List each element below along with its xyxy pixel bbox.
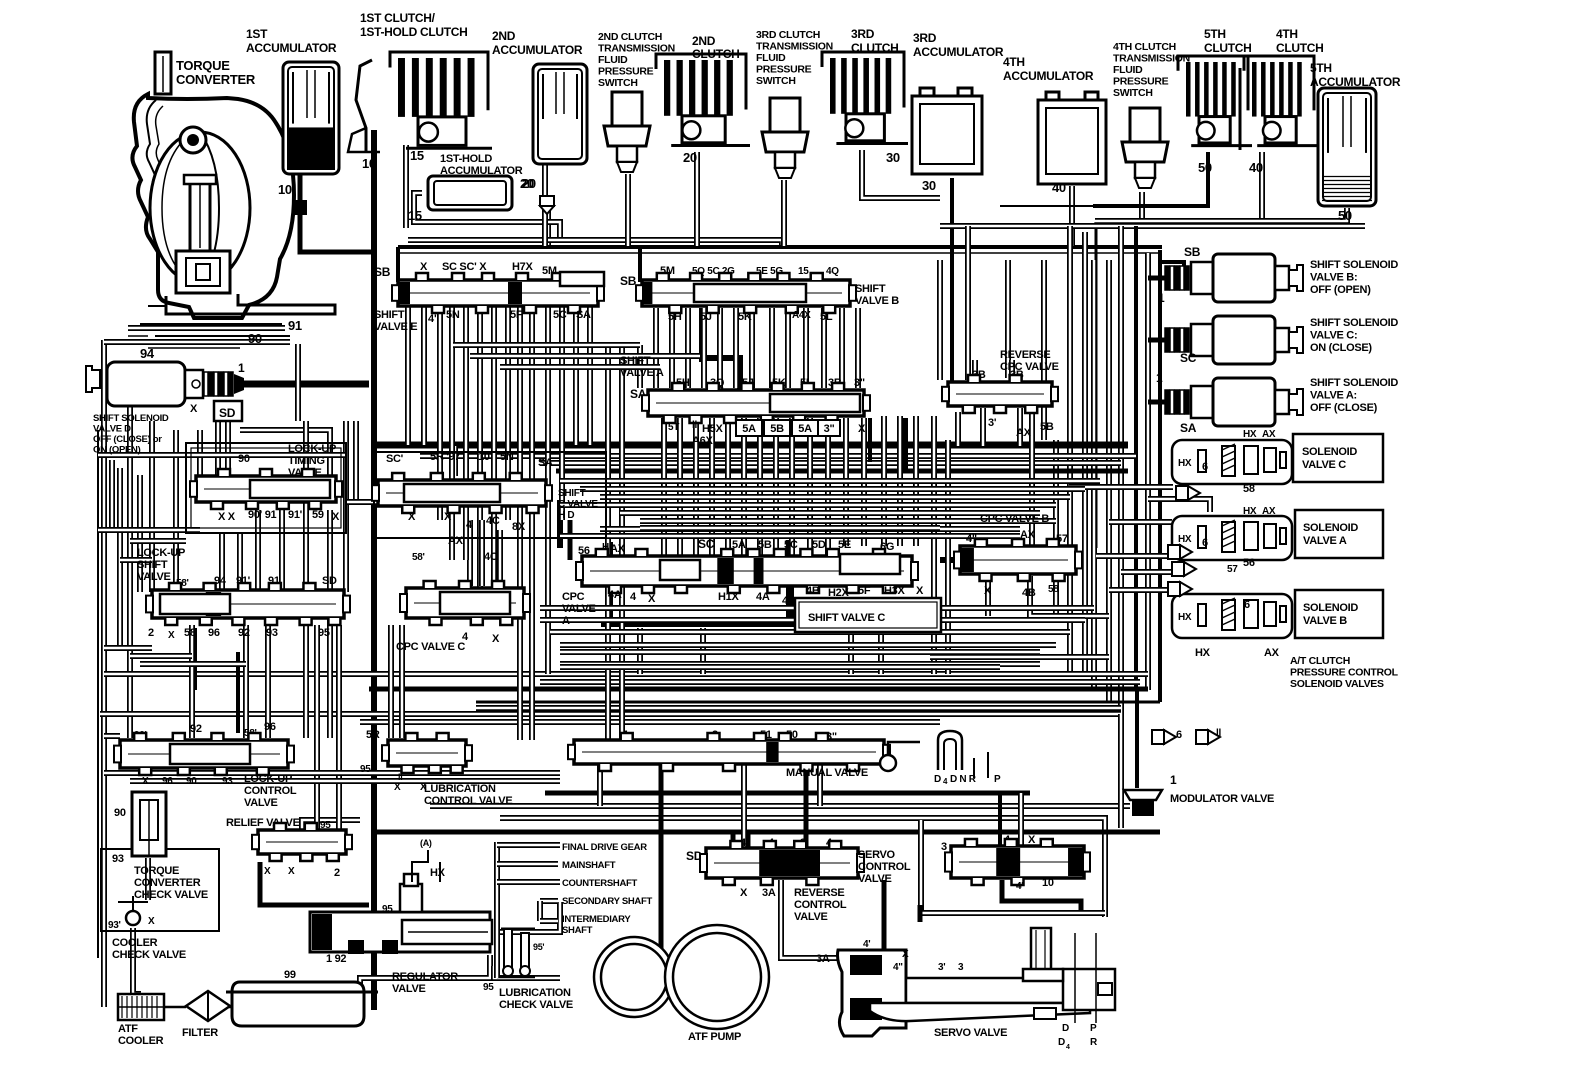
svg-text:VALVE: VALVE	[794, 911, 828, 923]
svg-text:93: 93	[222, 776, 233, 787]
ATF pump	[594, 925, 769, 1043]
svg-text:58: 58	[1048, 584, 1059, 595]
svg-text:4A: 4A	[608, 589, 622, 601]
servo valve	[816, 928, 1115, 1051]
svg-text:TORQUE: TORQUE	[134, 865, 179, 877]
wire solenoid D to trunk	[243, 381, 369, 388]
wire manual valve drop 744	[741, 764, 747, 848]
filter	[182, 991, 230, 1039]
svg-text:X X: X X	[218, 511, 236, 523]
svg-text:SD: SD	[219, 406, 236, 420]
wire thick 4 vert	[607, 542, 613, 624]
wire solC assembly link	[1069, 484, 1173, 490]
svg-text:REVERSE: REVERSE	[794, 887, 844, 899]
svg-text:COUNTERSHAFT: COUNTERSHAFT	[562, 878, 638, 889]
svg-text:ON (CLOSE): ON (CLOSE)	[1310, 342, 1372, 354]
svg-text:5N: 5N	[500, 451, 514, 463]
svg-text:4A: 4A	[756, 591, 770, 603]
svg-text:SWITCH: SWITCH	[598, 77, 638, 89]
svg-text:X: X	[420, 261, 428, 273]
wire 2nd accum check valve	[545, 196, 551, 246]
svg-text:91': 91'	[288, 509, 303, 521]
svg-text:3": 3"	[854, 377, 865, 389]
svg-text:SHIFT: SHIFT	[855, 283, 886, 295]
wire regulator right	[495, 902, 560, 932]
svg-text:H7X: H7X	[512, 261, 533, 273]
shift solenoid valve B	[1165, 245, 1398, 302]
lubrication control valve	[360, 729, 512, 807]
wire vertical tube bundle between valves	[408, 226, 1044, 740]
svg-text:H1X: H1X	[718, 591, 739, 603]
CPC valve A and shift valve C	[562, 537, 941, 632]
svg-text:H2X: H2X	[828, 587, 849, 599]
svg-text:10: 10	[278, 182, 292, 197]
svg-text:VALVE C:: VALVE C:	[1310, 330, 1357, 342]
wire CPC C top link	[467, 520, 473, 586]
svg-text:SHIFT VALVE C: SHIFT VALVE C	[808, 612, 885, 624]
svg-text:ATF PUMP: ATF PUMP	[688, 1031, 741, 1043]
svg-text:CLUTCH: CLUTCH	[1204, 41, 1252, 55]
2nd accumulator	[492, 29, 587, 214]
svg-text:4": 4"	[428, 313, 439, 325]
svg-text:A/T CLUTCH: A/T CLUTCH	[1290, 655, 1350, 667]
svg-text:H D: H D	[558, 510, 574, 521]
svg-text:X: X	[492, 633, 500, 645]
svg-text:X: X	[264, 866, 271, 877]
svg-text:OFF (CLOSE) or: OFF (CLOSE) or	[93, 434, 162, 445]
svg-text:C VALVE: C VALVE	[558, 499, 598, 510]
shift valve D	[372, 451, 598, 533]
svg-text:A: A	[562, 615, 570, 627]
wire 5th clutch 50 down	[1093, 152, 1208, 206]
svg-text:93: 93	[266, 627, 278, 639]
wire bottom 818	[500, 818, 1105, 917]
svg-text:1: 1	[1156, 371, 1163, 385]
wire SB valveB top	[638, 247, 642, 282]
svg-text:SHIFT SOLENOID: SHIFT SOLENOID	[93, 413, 169, 424]
svg-text:SHIFT: SHIFT	[137, 559, 168, 571]
wire main thick mid 445	[375, 442, 1128, 449]
svg-text:SA: SA	[576, 309, 591, 321]
svg-text:4TH: 4TH	[1276, 27, 1298, 41]
wire 4th accum drop 40	[1069, 186, 1075, 246]
svg-text:91: 91	[288, 318, 302, 333]
svg-text:MAINSHAFT: MAINSHAFT	[562, 860, 616, 871]
svg-text:1ST-HOLD: 1ST-HOLD	[440, 153, 492, 165]
svg-text:SECONDARY SHAFT: SECONDARY SHAFT	[562, 896, 652, 907]
svg-text:X: X	[394, 782, 401, 793]
svg-text:SERVO VALVE: SERVO VALVE	[934, 1027, 1007, 1039]
svg-text:D: D	[1058, 1037, 1065, 1048]
2nd clutch transmission fluid pressure switch	[598, 31, 675, 172]
wire 1 92 line	[310, 903, 369, 908]
svg-text:10: 10	[362, 156, 376, 171]
svg-text:A6X: A6X	[692, 435, 713, 447]
wire pan 99 to regulator	[360, 955, 490, 992]
svg-text:MODULATOR VALVE: MODULATOR VALVE	[1170, 793, 1274, 805]
svg-text:SD: SD	[322, 575, 337, 587]
svg-text:10: 10	[1042, 877, 1054, 889]
svg-text:ON (OPEN): ON (OPEN)	[93, 445, 141, 456]
svg-text:VALVE E: VALVE E	[374, 321, 417, 333]
svg-text:VALVE: VALVE	[392, 983, 426, 995]
wire TCC check drop	[145, 858, 151, 900]
svg-text:LOCK-UP: LOCK-UP	[288, 443, 336, 455]
svg-text:1: 1	[1158, 291, 1165, 305]
svg-text:X: X	[148, 916, 155, 927]
svg-text:ACCUMULATOR: ACCUMULATOR	[246, 41, 337, 55]
svg-text:95: 95	[320, 820, 331, 831]
svg-text:3: 3	[941, 841, 947, 853]
svg-text:57: 57	[1227, 564, 1238, 575]
svg-text:4': 4'	[1016, 881, 1023, 892]
svg-text:CPC VALVE: CPC VALVE	[1000, 361, 1059, 373]
wire 3rd TFPS drop	[781, 180, 787, 246]
4th accumulator	[1003, 55, 1106, 195]
5th accumulator	[1310, 61, 1401, 223]
frame shift valve D box	[374, 452, 606, 538]
wire reverse CPC drop	[980, 408, 986, 446]
wire manual valve drop 661	[659, 764, 664, 978]
svg-text:R: R	[1090, 1037, 1098, 1048]
wire manual valve drop 600	[597, 764, 603, 806]
svg-text:99: 99	[284, 969, 296, 981]
svg-text:SHIFT SOLENOID: SHIFT SOLENOID	[1310, 317, 1398, 329]
torque converter TC	[128, 52, 335, 361]
svg-text:ACCUMULATOR: ACCUMULATOR	[492, 43, 583, 57]
wire bottom 806	[430, 803, 1130, 809]
shaft labels and lubrication lines	[497, 842, 652, 978]
wire right trunk 1121	[1118, 226, 1124, 714]
svg-text:ACCUMULATOR: ACCUMULATOR	[1003, 69, 1094, 83]
svg-text:FLUID: FLUID	[598, 54, 628, 66]
svg-text:PRESSURE: PRESSURE	[1113, 76, 1169, 88]
svg-text:FILTER: FILTER	[182, 1027, 218, 1039]
wire 15 accumulator link	[414, 193, 560, 240]
svg-text:4B: 4B	[1022, 587, 1036, 599]
svg-text:1: 1	[1170, 773, 1177, 787]
svg-text:H3X: H3X	[884, 585, 905, 597]
wire thick valveA right	[902, 418, 908, 470]
svg-text:4': 4'	[863, 939, 870, 950]
svg-text:TORQUE: TORQUE	[176, 58, 230, 73]
wire filter to pan	[228, 1006, 240, 1009]
svg-text:6: 6	[1176, 729, 1182, 741]
svg-text:X: X	[858, 423, 866, 435]
svg-text:3A: 3A	[816, 953, 830, 965]
wire regulator inlet thick	[260, 862, 310, 905]
svg-text:HX: HX	[1178, 534, 1192, 545]
svg-text:PRESSURE: PRESSURE	[598, 66, 654, 78]
svg-text:92: 92	[190, 723, 202, 735]
svg-text:MANUAL VALVE: MANUAL VALVE	[786, 767, 868, 779]
svg-text:ll: ll	[692, 420, 697, 431]
solenoid valve C assembly	[1172, 429, 1383, 495]
svg-text:CLUTCH: CLUTCH	[1276, 41, 1324, 55]
svg-text:CONTROL VALVE: CONTROL VALVE	[424, 795, 512, 807]
svg-text:2: 2	[148, 627, 154, 639]
svg-text:CHECK VALVE: CHECK VALVE	[134, 889, 208, 901]
svg-text:20: 20	[683, 150, 697, 165]
wire top bus thin 253	[398, 252, 1162, 254]
svg-text:X: X	[984, 585, 992, 597]
wire bottom 702	[476, 701, 1160, 704]
CPC valve C	[396, 535, 530, 653]
wire bottom 832 thick	[376, 830, 1160, 835]
svg-text:X: X	[648, 593, 656, 605]
svg-text:10: 10	[478, 451, 490, 463]
svg-text:X: X	[902, 949, 909, 960]
svg-text:SOLENOID: SOLENOID	[1302, 446, 1357, 458]
svg-text:SOLENOID: SOLENOID	[1303, 522, 1358, 534]
svg-text:LUBRICATION: LUBRICATION	[424, 783, 496, 795]
wire 4th clutch 40 down	[1259, 152, 1265, 220]
svg-text:4B: 4B	[806, 585, 820, 597]
svg-text:TIMING: TIMING	[288, 455, 325, 467]
svg-text:SHIFT: SHIFT	[558, 488, 586, 499]
wire 4th TFPS drop	[1139, 192, 1145, 226]
reverse CPC valve	[942, 349, 1059, 439]
svg-text:40: 40	[1052, 180, 1066, 195]
svg-text:3: 3	[958, 962, 964, 973]
wire mid thick 471	[556, 469, 1128, 474]
wire left col 130	[127, 392, 133, 738]
svg-text:8X: 8X	[512, 521, 526, 533]
frame TCC check valve box	[101, 849, 219, 931]
wire servo valve feed 2	[921, 820, 1105, 913]
svg-text:SC SC' X: SC SC' X	[442, 261, 487, 273]
svg-text:SHIFT: SHIFT	[620, 355, 651, 367]
svg-text:D N R: D N R	[950, 774, 977, 785]
wire 15 from 1st-hold clutch	[403, 145, 409, 228]
svg-text:4: 4	[1066, 1044, 1070, 1051]
lock-up control valve	[114, 721, 297, 809]
svg-text:SOLENOID: SOLENOID	[1303, 602, 1358, 614]
svg-text:5D: 5D	[812, 539, 826, 551]
wire main left trunk 1	[371, 130, 377, 1010]
svg-text:VALVE B:: VALVE B:	[1310, 272, 1357, 284]
svg-text:X: X	[288, 866, 295, 877]
wire sol SB elbow	[1160, 262, 1184, 270]
svg-text:59: 59	[312, 509, 324, 521]
svg-text:20: 20	[520, 176, 534, 191]
svg-text:CONTROL: CONTROL	[858, 861, 911, 873]
svg-text:4TH CLUTCH: 4TH CLUTCH	[1113, 41, 1176, 53]
wire right trunk 1085	[1082, 232, 1088, 674]
svg-text:HX: HX	[1178, 458, 1192, 469]
svg-text:VALVE C: VALVE C	[1302, 459, 1346, 471]
svg-text:5R '97: 5R '97	[430, 451, 460, 463]
wire thick shiftC horiz	[601, 621, 800, 627]
wire left col 104	[101, 340, 107, 1007]
wire 5th accum 50	[1095, 208, 1347, 221]
wire CPC B drop2	[1030, 576, 1109, 616]
shift solenoid valve C	[1158, 291, 1398, 365]
svg-text:LUBRICATION: LUBRICATION	[499, 987, 571, 999]
svg-text:HX: HX	[1195, 647, 1211, 659]
wire thick 5J elbow	[699, 358, 740, 390]
svg-text:3": 3"	[824, 423, 835, 435]
svg-text:58: 58	[184, 627, 196, 639]
1st accumulator	[246, 27, 339, 215]
svg-text:ACCUMULATOR: ACCUMULATOR	[913, 45, 1004, 59]
svg-text:SOLENOID VALVES: SOLENOID VALVES	[1290, 678, 1384, 690]
wire right trunk 1056	[1053, 440, 1059, 616]
wire 2nd accum drop 20	[542, 164, 548, 246]
svg-text:4C: 4C	[486, 515, 500, 527]
svg-text:6: 6	[1202, 537, 1208, 549]
CPC valve B	[954, 513, 1082, 599]
reverse control valve	[686, 837, 864, 923]
ATF cooler	[118, 994, 164, 1047]
svg-text:CONTROL: CONTROL	[794, 899, 847, 911]
svg-text:5TH: 5TH	[1310, 61, 1332, 75]
wire thick left 238	[236, 652, 240, 733]
svg-text:15: 15	[798, 266, 809, 277]
svg-text:AX: AX	[1016, 427, 1032, 439]
wire mid bus 463	[540, 460, 1121, 466]
servo control valve	[858, 834, 1090, 892]
manual valve	[568, 729, 1001, 786]
svg-text:COOLER: COOLER	[118, 1035, 164, 1047]
svg-text:6: 6	[1244, 599, 1250, 611]
svg-text:SHAFT: SHAFT	[562, 925, 593, 936]
svg-text:PRESSURE: PRESSURE	[756, 64, 812, 76]
svg-text:50: 50	[1338, 208, 1352, 223]
svg-text:5A: 5A	[798, 423, 812, 435]
svg-text:5R: 5R	[366, 729, 380, 741]
svg-text:CHECK VALVE: CHECK VALVE	[499, 999, 573, 1011]
svg-text:FINAL DRIVE GEAR: FINAL DRIVE GEAR	[562, 842, 647, 853]
svg-text:5B: 5B	[1040, 421, 1054, 433]
svg-text:3': 3'	[988, 417, 997, 429]
svg-text:95': 95'	[533, 942, 544, 952]
3rd clutch transmission fluid pressure switch	[756, 29, 833, 178]
svg-text:90: 90	[238, 453, 250, 465]
svg-text:1 92: 1 92	[326, 953, 346, 965]
wire reverse CPC drop2	[1017, 408, 1023, 446]
wire thick 870	[868, 418, 872, 462]
svg-text:SA: SA	[1180, 421, 1197, 435]
svg-text:X: X	[1028, 834, 1036, 846]
svg-text:A4X: A4X	[792, 310, 811, 321]
wire bottom 714	[100, 711, 1121, 717]
svg-text:REVERSE: REVERSE	[1000, 349, 1050, 361]
svg-text:P: P	[1090, 1023, 1097, 1034]
wire servo control feed	[998, 793, 1002, 846]
wire solB assembly link 590	[1109, 587, 1168, 593]
1st clutch / 1st-hold clutch	[348, 11, 492, 171]
svg-text:LOCK-UP: LOCK-UP	[244, 773, 292, 785]
svg-text:OFF (CLOSE): OFF (CLOSE)	[1310, 402, 1378, 414]
svg-text:VALVE A:: VALVE A:	[1310, 390, 1357, 402]
svg-text:VALVE: VALVE	[244, 797, 278, 809]
svg-text:CONTROL: CONTROL	[244, 785, 297, 797]
wire servo control feed2	[1018, 793, 1024, 846]
svg-text:30: 30	[922, 178, 936, 193]
wire right trunk 1148	[1145, 253, 1151, 690]
svg-text:SHIFT: SHIFT	[374, 309, 405, 321]
svg-text:SC': SC'	[386, 453, 404, 465]
svg-text:SA: SA	[538, 457, 553, 469]
svg-text:3A: 3A	[762, 887, 776, 899]
svg-text:VALVE B: VALVE B	[855, 295, 899, 307]
svg-text:3RD: 3RD	[851, 27, 875, 41]
wire hatched link 499	[1148, 499, 1210, 512]
svg-text:COOLER: COOLER	[112, 937, 158, 949]
svg-text:96: 96	[208, 627, 220, 639]
svg-text:X: X	[190, 403, 198, 415]
lubrication check valve	[483, 929, 573, 1011]
svg-text:SC: SC	[1180, 351, 1197, 365]
wire reverse ctl to servo	[781, 880, 838, 958]
svg-text:5J: 5J	[700, 311, 712, 323]
wire mid bus 456	[420, 453, 1136, 459]
wire cooler drop	[133, 928, 141, 994]
svg-text:90: 90	[248, 331, 262, 346]
svg-text:AX: AX	[1264, 647, 1280, 659]
1st-hold accumulator	[408, 153, 536, 223]
svg-text:5T: 5T	[668, 422, 679, 433]
svg-text:HX: HX	[1178, 612, 1192, 623]
wire right trunk 1094	[1091, 260, 1097, 688]
svg-text:SB: SB	[620, 274, 637, 288]
svg-text:2ND: 2ND	[692, 34, 716, 48]
wire 91 line	[128, 325, 285, 331]
wire thick servo L	[918, 905, 923, 922]
cooler check valve	[112, 937, 186, 961]
wire manual valve drop 806	[804, 764, 809, 850]
svg-text:96: 96	[162, 776, 173, 787]
shift valve B	[620, 265, 899, 323]
svg-text:1ST: 1ST	[246, 27, 268, 41]
svg-text:REGULATOR: REGULATOR	[392, 971, 458, 983]
frame lock-up timing valve box	[186, 443, 346, 533]
svg-text:92: 92	[238, 627, 250, 639]
svg-text:90' 91: 90' 91	[248, 509, 277, 521]
svg-text:2ND CLUTCH: 2ND CLUTCH	[598, 31, 662, 43]
wire thick CPCB left	[940, 557, 962, 563]
svg-text:OFF (OPEN): OFF (OPEN)	[1310, 284, 1371, 296]
2nd clutch	[656, 34, 750, 165]
svg-text:5L: 5L	[820, 311, 833, 323]
wire bottom 708	[476, 705, 1121, 711]
svg-text:LOCK-UP: LOCK-UP	[137, 547, 185, 559]
wire relief valve link	[302, 820, 360, 862]
svg-text:15: 15	[408, 208, 422, 223]
4th clutch transmission fluid pressure switch	[1113, 41, 1190, 188]
solenoid valve A assembly	[1172, 506, 1383, 569]
svg-text:X: X	[408, 511, 416, 523]
svg-text:VALVE: VALVE	[562, 603, 596, 615]
wire 2nd TFPS drop	[625, 174, 631, 246]
wire solA assembly link	[1109, 519, 1172, 525]
svg-text:X: X	[740, 887, 748, 899]
wire right bus 206	[1000, 205, 1095, 207]
shift solenoid valve D	[86, 361, 245, 456]
svg-text:X: X	[142, 776, 149, 787]
wire sd to lockup	[240, 430, 330, 476]
svg-text:HX: HX	[1243, 429, 1257, 440]
wire trunk drop 748	[746, 832, 751, 850]
svg-text:ll: ll	[1216, 728, 1221, 739]
svg-text:1: 1	[238, 361, 245, 375]
wire bottom trunk 674	[104, 671, 1148, 677]
wire bottom thick 688	[369, 687, 1148, 692]
svg-text:5H: 5H	[668, 311, 682, 323]
svg-text:RELIEF VALVE: RELIEF VALVE	[226, 817, 300, 829]
svg-text:96: 96	[264, 721, 276, 733]
